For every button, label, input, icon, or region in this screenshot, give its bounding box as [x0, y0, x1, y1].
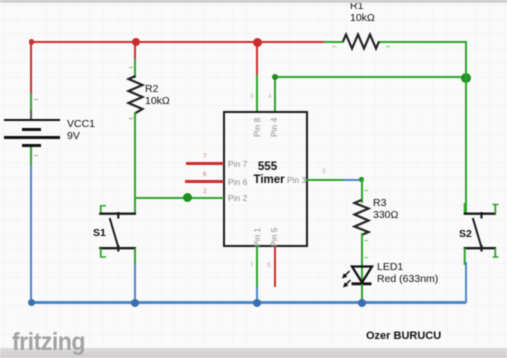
junction dot: rail at LED	[358, 299, 366, 307]
junction dot: rail at battery corner	[28, 299, 35, 306]
pin number 1 tick	[250, 262, 253, 268]
terminal tick R1 left	[332, 46, 336, 47]
wire: R3 branch green above resistor	[361, 179, 363, 203]
junction dot: top rail at R2	[132, 38, 140, 46]
wire: R2 branch green above resistor	[134, 59, 136, 78]
resistor R1	[341, 32, 381, 52]
pin number 8 tick	[250, 94, 253, 100]
label S1	[93, 228, 106, 240]
junction dot: pin2 wire	[183, 193, 192, 202]
IC U1 555 timer box	[223, 111, 308, 247]
pin label Pin 6	[228, 177, 247, 187]
pin number 7	[203, 153, 207, 160]
wire: pin1 blue to rail	[256, 287, 258, 303]
switch S2	[455, 195, 507, 270]
wire: LED to bottom rail green	[361, 284, 363, 303]
wire: green horizontal net at y=77 to right spine	[274, 76, 466, 78]
battery VCC1	[4, 119, 60, 122]
wire: left spine green above battery	[30, 93, 32, 111]
switch S1	[92, 195, 144, 270]
top gray edge	[0, 0, 507, 3]
wire: R3 to LED green	[361, 233, 363, 284]
label VCC1 9V	[67, 119, 95, 142]
pin number 2	[203, 188, 207, 195]
wire: pin5 red dangling below box	[274, 246, 276, 287]
pin label Pin 4 (rotated)	[269, 117, 279, 136]
wire: R2 branch green below resistor down to S1	[134, 112, 136, 214]
junction dot: rail at S1	[131, 299, 139, 307]
wire: pin3 blue segment	[343, 179, 360, 181]
terminal tick R1 right	[386, 46, 390, 47]
wire: left spine blue (battery to bottom rail)	[30, 165, 32, 304]
pin label Pin 7	[228, 159, 247, 169]
wire: R2 branch red from rail	[134, 41, 136, 59]
wire: left spine red (top rail to battery)	[30, 41, 32, 93]
terminal tick R3 top	[364, 190, 368, 191]
junction dot: pin3 corner bendpoint	[359, 177, 364, 182]
label R2 10kΩ	[145, 84, 170, 107]
terminal tick R2 top	[129, 67, 133, 68]
wire: top rail green segment right of R1	[378, 41, 467, 43]
label R3 330Ω	[373, 198, 398, 221]
wire: pin7 red stub	[186, 162, 224, 164]
pin number 6	[203, 171, 207, 178]
resistor R2	[126, 75, 146, 115]
wire: right spine green	[465, 41, 467, 214]
pin label Pin 1 (rotated)	[252, 228, 262, 247]
wire: pin8 branch red from rail	[256, 41, 258, 75]
wire: left spine green below battery	[30, 147, 32, 165]
terminal tick battery bottom	[34, 155, 38, 156]
wire: pin6 red stub	[185, 180, 224, 182]
terminal tick R3 bottom	[364, 240, 368, 241]
junction dot: top rail at pin8 branch	[253, 38, 262, 47]
pin number 3	[322, 169, 325, 175]
LED LED1	[334, 262, 379, 290]
label R1 10kΩ	[350, 1, 375, 24]
wire: pin2 green horizontal	[134, 197, 224, 199]
bottom gray band	[0, 348, 507, 358]
pin label Pin 5 (rotated)	[269, 228, 279, 247]
pin number 5 tick	[267, 262, 271, 269]
junction dot: top-left corner bendpoint	[29, 39, 35, 45]
fritzing watermark	[12, 328, 85, 357]
junction dot: rail at pin1	[253, 299, 261, 307]
label 555 Timer	[254, 161, 282, 186]
wire: top rail green segment left of R1	[324, 41, 344, 43]
terminal tick battery top	[34, 99, 38, 100]
wire: S2 bottom blue to rail	[465, 262, 467, 303]
wire: pin3 green horizontal	[306, 179, 343, 181]
author text	[366, 330, 441, 342]
junction dot: big green right spine	[461, 73, 471, 83]
wire: S1 bottom blue to rail	[134, 264, 136, 303]
terminal tick LED top	[364, 257, 368, 258]
pin label Pin 8 (rotated)	[252, 117, 262, 136]
junction dot: pin4 bend	[272, 74, 278, 80]
wire: pin8 branch green to box	[256, 75, 258, 111]
label S2	[459, 229, 472, 241]
wire: bottom rail blue	[30, 301, 466, 304]
wire: pin1 green below box	[256, 246, 258, 287]
pin label Pin 3	[287, 175, 306, 185]
wire: top rail red (VCC)	[30, 41, 325, 43]
pin number 4 tick	[268, 94, 271, 100]
terminal tick R2 bottom	[129, 118, 133, 119]
pin label Pin 2	[228, 193, 247, 203]
label LED1 Red (633nm)	[377, 262, 438, 285]
resistor R3	[352, 199, 372, 237]
wire: pin4 branch green vertical	[274, 76, 276, 111]
